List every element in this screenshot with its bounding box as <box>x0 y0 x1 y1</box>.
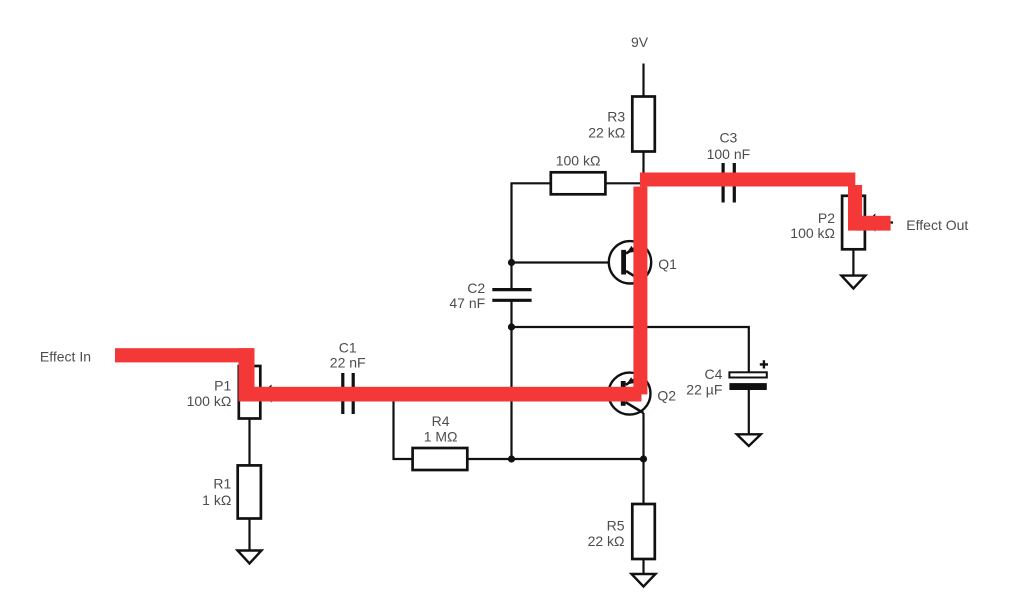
wire Q1 collector up <box>642 180 644 242</box>
wire node A to C3 left <box>644 178 722 180</box>
signal path highlight: Effect In segment <box>115 348 254 362</box>
resistor R5 <box>632 504 655 559</box>
svg-text:Effect In: Effect In <box>40 348 91 364</box>
svg-text:22 kΩ: 22 kΩ <box>588 125 625 141</box>
svg-text:R5: R5 <box>607 518 625 534</box>
svg-text:100 kΩ: 100 kΩ <box>187 393 232 409</box>
wire Effect In to P1 top <box>120 355 250 367</box>
wire mid rail to C4 <box>512 327 749 372</box>
svg-text:Q1: Q1 <box>658 256 677 272</box>
wire R5 bottom <box>642 559 644 574</box>
node junction C2 top <box>508 259 515 266</box>
wire P2 wiper to Effect Out <box>876 221 890 223</box>
svg-text:22 µF: 22 µF <box>686 381 722 397</box>
svg-text:47 nF: 47 nF <box>449 295 485 311</box>
wire C3 right to P2 top <box>736 180 854 196</box>
signal path highlight: node A to P2 <box>640 173 855 187</box>
wire R1 bottom <box>248 519 250 551</box>
signal path highlight: Effect Out stub <box>855 216 890 231</box>
resistor R3 <box>632 97 655 152</box>
wire node A to 100k right <box>605 182 643 184</box>
svg-text:R4: R4 <box>432 413 450 429</box>
wire P1 wiper to C1 <box>277 392 341 394</box>
wire Q1 emitter to Q2 collector <box>642 282 644 374</box>
wire P2 bottom <box>852 249 854 275</box>
node junction emitter row left <box>508 455 515 462</box>
ground R5 <box>632 574 656 587</box>
svg-text:Effect Out: Effect Out <box>906 217 968 233</box>
svg-text:100 nF: 100 nF <box>707 146 751 162</box>
signal path highlight: wiper to Q2 <box>239 387 642 402</box>
svg-text:C3: C3 <box>719 130 737 146</box>
potentiometer P1 <box>239 366 260 419</box>
wire R3 bottom to node A <box>642 152 644 184</box>
wire 9V stem <box>642 64 644 97</box>
wire C2 bottom down <box>510 301 512 459</box>
resistor 100 kΩ <box>551 172 606 194</box>
node junction mid rail <box>508 323 515 330</box>
resistor R1 <box>238 465 261 518</box>
ground C4 <box>737 434 761 446</box>
wire C4 bottom <box>748 390 750 434</box>
signal path highlight: down P2 <box>848 185 862 231</box>
signal path highlight: up collector rail <box>633 187 647 395</box>
svg-text:9V: 9V <box>631 34 649 50</box>
svg-text:C1: C1 <box>339 339 357 355</box>
svg-text:1 MΩ: 1 MΩ <box>424 428 458 444</box>
svg-text:22 nF: 22 nF <box>330 355 366 371</box>
wire Q2 emitter down <box>642 413 644 459</box>
svg-text:C2: C2 <box>467 280 485 296</box>
svg-text:100 kΩ: 100 kΩ <box>556 153 601 169</box>
svg-text:22 kΩ: 22 kΩ <box>588 533 625 549</box>
wire Q1 base <box>512 261 610 263</box>
capacitor C1 <box>343 373 353 414</box>
transistor Q1 <box>609 241 651 283</box>
svg-text:R1: R1 <box>213 476 231 492</box>
capacitor C2 <box>492 290 531 301</box>
ground P2 <box>841 276 865 289</box>
wire R5 top <box>642 459 644 504</box>
wire 100k left down <box>512 183 551 289</box>
svg-text:1 kΩ: 1 kΩ <box>202 492 231 508</box>
potentiometer P2 <box>842 196 865 250</box>
svg-text:P1: P1 <box>214 377 231 393</box>
capacitor C3 <box>723 163 734 203</box>
svg-text:P2: P2 <box>818 210 835 226</box>
wire P1 bottom to R1 <box>248 419 250 466</box>
capacitor C4 <box>729 372 766 377</box>
wire C1 to Q2 base <box>355 392 609 394</box>
node junction emitter row right <box>640 455 647 462</box>
wire emitter row <box>394 394 644 459</box>
transistor Q2 <box>609 373 651 415</box>
svg-text:100 kΩ: 100 kΩ <box>790 225 835 241</box>
svg-text:C4: C4 <box>704 366 722 382</box>
ground R1 <box>238 551 262 564</box>
resistor R4 <box>413 448 468 470</box>
signal path highlight: down P1 <box>239 348 255 401</box>
svg-text:Q2: Q2 <box>657 388 676 404</box>
svg-text:R3: R3 <box>607 108 625 124</box>
